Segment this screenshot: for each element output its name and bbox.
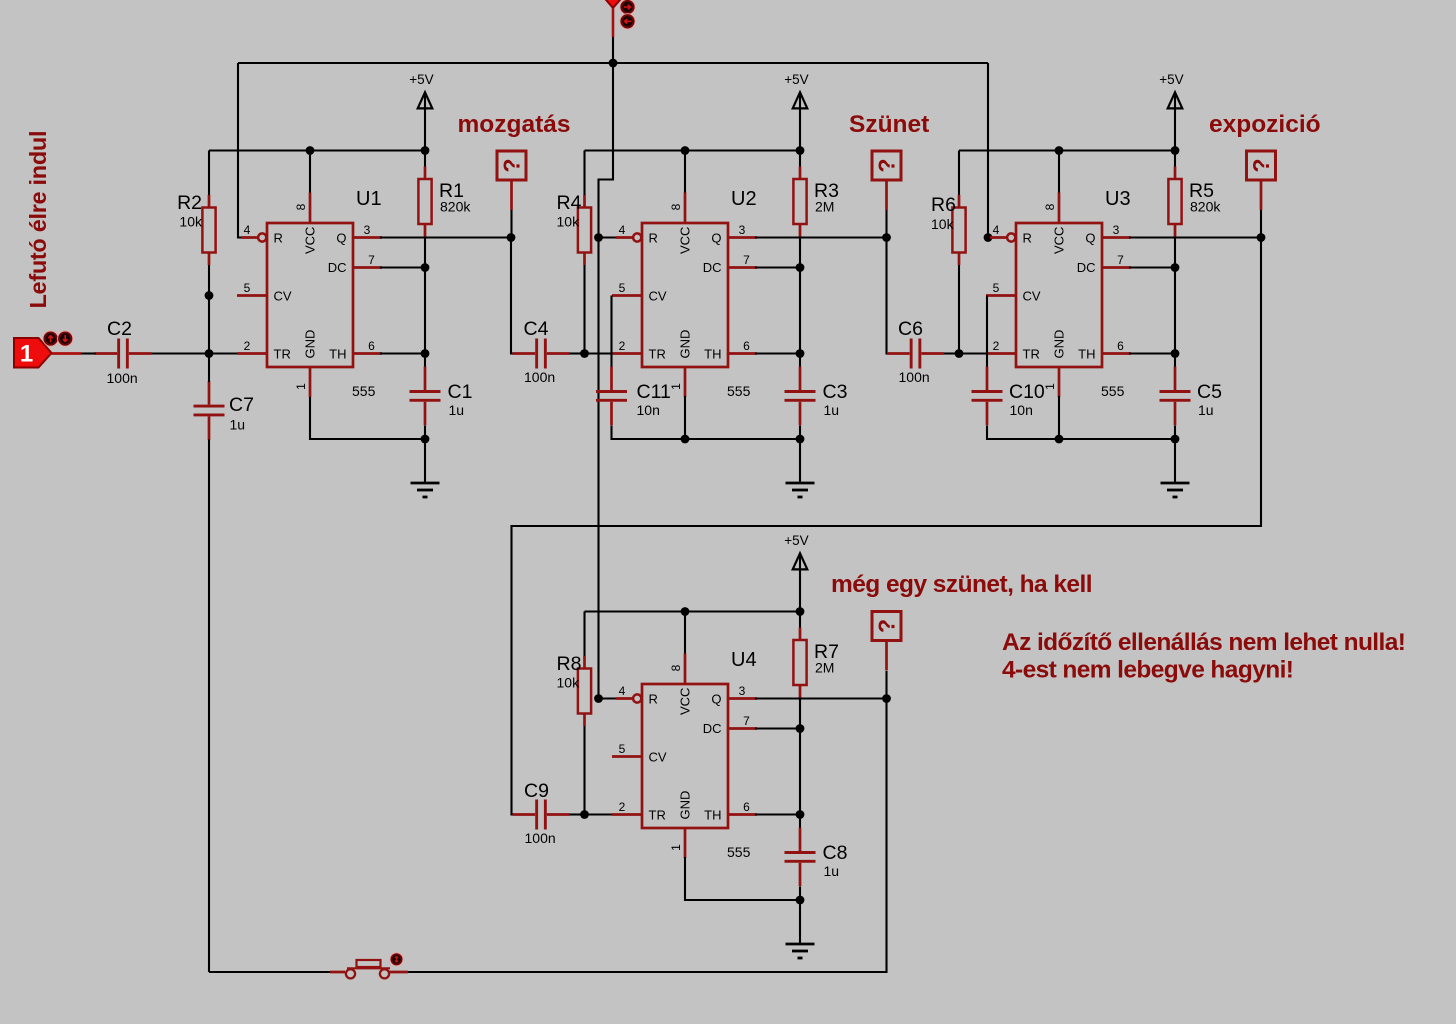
node rail/R7 junction (796, 607, 805, 616)
svg-text:10k: 10k (931, 216, 955, 232)
wire rail to R1 (424, 151, 426, 168)
node gnd junction U4 (796, 896, 805, 905)
resistor R1 (418, 167, 431, 237)
wire Q3 output (1129, 236, 1261, 238)
resistor R5 (1168, 167, 1181, 237)
wire +5V rail U3 (959, 149, 1175, 151)
wire DC3 to R5 line (1129, 266, 1175, 268)
wire R2 top (208, 151, 210, 197)
wire TP4 down (885, 671, 887, 699)
wire TH1 to R1 line (380, 352, 425, 354)
node U3 reset junction (984, 233, 993, 242)
wire top reset rail (238, 62, 988, 64)
node TH junction U1 (421, 349, 430, 358)
node TR junction U2 (580, 349, 589, 358)
svg-text:U3: U3 (1105, 188, 1131, 210)
capacitor C7 (194, 381, 225, 440)
wire TR stub link U3 (959, 352, 988, 354)
flag top (net name flag pointing down) (604, 0, 623, 37)
svg-text:10n: 10n (637, 402, 660, 418)
wire TH4 to R7 line (755, 813, 800, 815)
wire Q2 output (755, 236, 887, 238)
wire TP1 down (510, 210, 512, 238)
wire C10 bottom to gnd bus (987, 426, 1175, 440)
wire TP2 down (885, 210, 887, 238)
op-amp U2 (555 timer) (612, 193, 757, 398)
svg-text:1u: 1u (449, 402, 465, 418)
node DC junction U3 (1171, 263, 1180, 272)
node rail/R3 junction (796, 146, 805, 155)
wire C7 long left line down to bottom (208, 354, 210, 973)
svg-text:még egy szünet, ha kell: még egy szünet, ha kell (831, 571, 1092, 598)
node gnd junction U1 (421, 435, 430, 444)
wire Q1 output (380, 236, 511, 238)
wire VCC pin8 U3 (1058, 151, 1060, 195)
wire +5V rail U1 (209, 149, 425, 151)
wire R7 down chain (799, 698, 801, 830)
ground U2 (786, 440, 815, 497)
node DC junction U1 (421, 263, 430, 272)
power +5V U2 (784, 72, 808, 151)
wire TR stub link U4 (585, 813, 615, 815)
svg-text:mozgatás: mozgatás (458, 111, 571, 138)
capacitor C5 (1160, 367, 1191, 426)
ERC marker icons at flag 1 (43, 331, 73, 346)
svg-text:C3: C3 (823, 381, 848, 403)
svg-text:10n: 10n (1010, 402, 1033, 418)
wire +5V rail U4 (585, 610, 801, 612)
power +5V U1 (409, 72, 433, 151)
test point TP1 (497, 151, 526, 210)
svg-text:1u: 1u (824, 402, 840, 418)
resistor R4 (578, 195, 591, 265)
svg-text:R6: R6 (931, 194, 956, 216)
node U2 reset junction (594, 233, 603, 242)
svg-text:U4: U4 (731, 649, 757, 671)
svg-text:1u: 1u (230, 417, 246, 433)
svg-text:Szünet: Szünet (849, 111, 929, 138)
ERC marker icon at switch (390, 953, 403, 966)
wire C1 bottom (424, 426, 426, 440)
node stray junction on R2 line (205, 291, 214, 300)
svg-text:C9: C9 (524, 780, 549, 802)
resistor R7 (793, 628, 806, 698)
svg-text:555: 555 (727, 383, 751, 399)
ground U4 (786, 901, 815, 958)
wire R8 top (583, 612, 585, 658)
node Q4 testpoint junction (882, 694, 891, 703)
node TR junction U4 (580, 810, 589, 819)
wire R4 top (583, 151, 585, 197)
svg-text:C6: C6 (898, 318, 923, 340)
wire C5 bottom (1174, 426, 1176, 440)
wire TH2 to R3 line (755, 352, 800, 354)
capacitor C8 (785, 828, 816, 887)
wire VCC pin8 U1 (309, 151, 311, 195)
capacitor C6 (887, 339, 944, 369)
wire DC4 to R7 line (755, 727, 800, 729)
wire R8 bottom to TR junction (583, 726, 585, 815)
svg-text:100n: 100n (107, 370, 138, 386)
test point TP2 (872, 151, 901, 210)
capacitor C3 (785, 367, 816, 426)
svg-text:2M: 2M (815, 660, 834, 676)
wire TR stub link U2 (585, 352, 615, 354)
wire U4 pin1 (685, 857, 800, 900)
wire +5V rail U2 (585, 149, 801, 151)
svg-text:820k: 820k (1190, 199, 1221, 215)
node DC junction U4 (796, 724, 805, 733)
wire R5 down chain (1174, 237, 1176, 369)
wire CV U2 drop to C11 (610, 296, 612, 368)
wire flag to C2 (80, 352, 96, 354)
svg-text:1u: 1u (1198, 402, 1214, 418)
wire U1 reset drop (238, 63, 253, 238)
resistor R6 (952, 195, 965, 265)
svg-text:R4: R4 (557, 192, 582, 214)
wire C6 right to TR junction U3 (944, 352, 959, 354)
resistor R3 (793, 167, 806, 237)
node gnd junction U3 (1171, 435, 1180, 444)
svg-text:C1: C1 (448, 381, 473, 403)
node pin1 junction U3 (1055, 435, 1064, 444)
svg-text:2M: 2M (815, 199, 834, 215)
svg-text:C11: C11 (637, 381, 671, 403)
svg-text:555: 555 (352, 383, 376, 399)
op-amp U4 (555 timer) (612, 654, 757, 859)
wire U3 pin1 (1058, 396, 1060, 439)
node TH junction U4 (796, 810, 805, 819)
wire VCC pin8 U2 (684, 151, 686, 195)
wire C8 bottom (799, 887, 801, 901)
svg-text:10k: 10k (557, 675, 581, 691)
wire U1 pin1 (310, 396, 425, 439)
wire C9 right to TR junction U4 (570, 813, 585, 815)
svg-text:10k: 10k (557, 214, 581, 230)
capacitor C11 (596, 367, 627, 426)
node TR junction U3 (955, 349, 964, 358)
test point TP4 (872, 612, 901, 671)
wire DC1 to R1 line (380, 266, 425, 268)
svg-text:Lefutó élre indul: Lefutó élre indul (25, 131, 51, 309)
svg-text:Az időzítő ellenállás nem lehe: Az időzítő ellenállás nem lehet nulla! (1002, 629, 1405, 656)
wire Q3 long link down and across to C9 (512, 238, 1262, 815)
node rail/VCC junction U1 (306, 146, 315, 155)
svg-text:U1: U1 (356, 188, 382, 210)
svg-text:10k: 10k (179, 214, 203, 230)
wire Q1 to C4 (511, 238, 524, 354)
node rail/VCC junction U2 (681, 146, 690, 155)
resistor R8 (578, 656, 591, 726)
node rail/VCC junction U3 (1055, 146, 1064, 155)
power +5V U4 (784, 533, 808, 612)
svg-text:820k: 820k (440, 199, 471, 215)
svg-text:expozició: expozició (1209, 111, 1321, 138)
svg-text:555: 555 (727, 844, 751, 860)
svg-text:U2: U2 (731, 188, 757, 210)
power +5V U3 (1159, 72, 1183, 151)
node TH junction U3 (1171, 349, 1180, 358)
svg-text:C7: C7 (229, 394, 254, 416)
node rail/VCC junction U4 (681, 607, 690, 616)
wire R6 bottom to TR junction (958, 265, 960, 354)
svg-text:R2: R2 (177, 192, 202, 214)
resistor R2 (202, 195, 215, 265)
node rail/R5 junction (1171, 146, 1180, 155)
switch push button (330, 960, 408, 978)
svg-text:R8: R8 (557, 653, 582, 675)
wire bottom rail left part (209, 971, 344, 973)
svg-text:C4: C4 (524, 318, 549, 340)
wire R2 bottom to TR junction (208, 265, 210, 354)
node Q3 testpoint junction (1257, 233, 1266, 242)
wire CV U3 drop to C10 (986, 296, 988, 368)
wire R3 down chain (799, 237, 801, 369)
wire rail to R3 (799, 151, 801, 168)
ERC marker icons at top flag (620, 0, 635, 29)
node Q1 testpoint junction (507, 233, 516, 242)
wire U4 reset stub link (599, 697, 619, 699)
wire Q2 to C6 (887, 238, 900, 354)
capacitor C4 (513, 339, 570, 369)
wire TH3 to R5 line (1129, 352, 1175, 354)
node U4 reset junction (594, 694, 603, 703)
capacitor C2 (95, 339, 152, 369)
capacitor C1 (410, 367, 441, 426)
wire C2 right to TR U1 (152, 352, 238, 354)
flag input 1 (14, 338, 81, 368)
svg-text:C8: C8 (823, 842, 848, 864)
svg-text:C10: C10 (1009, 381, 1045, 403)
wire C11 bottom to gnd bus (612, 426, 801, 440)
node TH junction U2 (796, 349, 805, 358)
wire R4 bottom to TR junction (583, 265, 585, 354)
flag START net vertical wire (599, 37, 614, 699)
svg-text:1u: 1u (824, 863, 840, 879)
node flag rail junction (609, 59, 618, 68)
ground U3 (1161, 440, 1190, 497)
wire C4 right to TR junction U2 (570, 352, 585, 354)
wire VCC pin8 U4 (684, 612, 686, 656)
node DC junction U2 (796, 263, 805, 272)
wire rail to R7 (799, 612, 801, 629)
svg-text:4-est nem lebegve hagyni!: 4-est nem lebegve hagyni! (1002, 657, 1293, 684)
capacitor C9 (513, 800, 570, 830)
svg-text:555: 555 (1101, 383, 1125, 399)
node TR junction U1 (205, 349, 214, 358)
wire R1 down chain (424, 237, 426, 369)
wire Q4 down to bottom rail (390, 699, 887, 973)
op-amp U3 (555 timer) (986, 193, 1131, 398)
wire U2 pin1 (684, 396, 686, 439)
wire R6 top (958, 151, 960, 197)
ground U1 (411, 440, 440, 497)
svg-text:100n: 100n (525, 830, 556, 846)
wire DC2 to R3 line (755, 266, 800, 268)
wire TP3 down (1260, 210, 1262, 238)
node Q2 testpoint junction (882, 233, 891, 242)
wire C3 bottom (799, 426, 801, 440)
wire U3 reset stub link (988, 236, 995, 238)
wire Q4 output (755, 697, 887, 699)
node rail/R1 junction (421, 146, 430, 155)
svg-text:100n: 100n (899, 369, 930, 385)
op-amp U1 (555 timer) (237, 193, 382, 398)
node pin1 junction U2 (681, 435, 690, 444)
svg-text:C2: C2 (107, 318, 132, 340)
wire U2 reset stub link (599, 236, 619, 238)
wire U3 reset drop (987, 63, 989, 238)
svg-text:1: 1 (20, 341, 33, 368)
svg-text:100n: 100n (524, 369, 555, 385)
node gnd junction U2 (796, 435, 805, 444)
wire rail to R5 (1174, 151, 1176, 168)
capacitor C10 (972, 367, 1003, 426)
svg-text:C5: C5 (1197, 381, 1222, 403)
test point TP3 (1247, 151, 1276, 210)
